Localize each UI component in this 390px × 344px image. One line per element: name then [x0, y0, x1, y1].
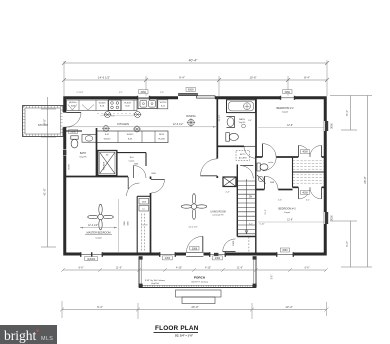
- svg-text:10'-6": 10'-6": [249, 76, 256, 80]
- window left wall bath: [63, 150, 68, 157]
- svg-text:Carpet: Carpet: [129, 159, 135, 162]
- svg-text:B-42: B-42: [105, 134, 109, 136]
- kitchen sink: [138, 99, 157, 109]
- svg-text:4'-10": 4'-10": [176, 267, 182, 270]
- master dim line: [80, 227, 117, 229]
- stairs: [236, 165, 238, 237]
- door top of stairs: [240, 165, 253, 167]
- left side dimension line: [47, 97, 49, 247]
- svg-text:Vinyl Rail: Vinyl Rail: [151, 283, 159, 285]
- tub bath2: [227, 100, 256, 113]
- svg-text:12'-6": 12'-6": [287, 220, 293, 222]
- svg-text:MLS: MLS: [41, 336, 53, 342]
- cooktop: [109, 100, 122, 111]
- svg-text:(2)3002: (2)3002: [87, 258, 96, 261]
- svg-text:2'-6": 2'-6": [278, 199, 282, 201]
- svg-text:11'-6": 11'-6": [237, 267, 243, 270]
- svg-text:MASTER BEDROOM: MASTER BEDROOM: [86, 232, 110, 235]
- svg-text:2'-0": 2'-0": [160, 92, 164, 94]
- chase box with X: [223, 177, 236, 187]
- toilet bath3: [257, 163, 260, 171]
- svg-text:3'-1": 3'-1": [306, 199, 310, 201]
- svg-text:8 3/4" Sq. Wd. Columns: 8 3/4" Sq. Wd. Columns: [145, 280, 165, 282]
- ceiling fan master: [99, 204, 102, 214]
- bedroom2 dim: [258, 127, 324, 129]
- sink bath2: [227, 117, 235, 128]
- closet shelves hatch upper: [293, 160, 324, 162]
- kitchen lower cabinets: [97, 131, 169, 143]
- svg-text:14'-6 1/2": 14'-6 1/2": [98, 76, 110, 80]
- svg-text:LIVING ROOM: LIVING ROOM: [210, 211, 225, 213]
- laundry closet walls: [116, 151, 118, 176]
- svg-text:Vinyl Flr: Vinyl Flr: [79, 156, 87, 158]
- svg-text:PORCH: PORCH: [194, 276, 206, 280]
- extension lines top: [63, 61, 65, 96]
- shower: [98, 151, 117, 176]
- laundry door arc: [134, 166, 147, 179]
- svg-text:3050: 3050: [331, 123, 334, 129]
- vanity bath1: [82, 135, 96, 143]
- bath2 door arc: [244, 146, 256, 158]
- wall bath2 south y146: [217, 145, 244, 147]
- kitchen light symbols: [105, 112, 111, 118]
- svg-text:SC: 1/4" = 1'-0": SC: 1/4" = 1'-0": [175, 334, 194, 337]
- sliding door dining 6068: [178, 94, 215, 100]
- porch rail hatch: [139, 285, 141, 287]
- svg-text:B-36: B-36: [126, 106, 130, 108]
- wall bedroom2 south y157: [255, 156, 262, 158]
- svg-text:W-2430: W-2430: [158, 138, 165, 140]
- svg-text:3'-1": 3'-1": [119, 92, 123, 94]
- dashed upper cabinet line: [97, 113, 137, 115]
- wall dining/bath vertical x217: [216, 99, 218, 159]
- closet2 double doors 4068: [298, 187, 300, 199]
- master door arc: [127, 183, 140, 196]
- railing dashed below stairs: [248, 237, 250, 253]
- svg-text:3'-0": 3'-0": [248, 120, 252, 122]
- door arc dining opening: [201, 159, 218, 176]
- svg-text:B-21: B-21: [161, 105, 165, 107]
- exterior walls: [65, 98, 326, 254]
- svg-text:3068: 3068: [128, 221, 130, 225]
- svg-text:SHOWER: SHOWER: [104, 161, 106, 170]
- wall hall/bedroom3 y189.5: [256, 189, 264, 191]
- door at stair hall 2468: [223, 251, 236, 253]
- svg-text:2452: 2452: [215, 257, 221, 260]
- svg-text:ATTIC: ATTIC: [240, 153, 246, 156]
- svg-text:9'-4": 9'-4": [179, 76, 185, 80]
- svg-text:Lin.: Lin.: [142, 208, 146, 210]
- stoop entry door 2868: [63, 112, 68, 128]
- svg-text:W-1803: W-1803: [99, 102, 106, 104]
- window living 2452 right: [209, 252, 226, 257]
- svg-text:6'-6": 6'-6": [345, 241, 349, 247]
- window bedroom2 3050 top: [280, 96, 295, 100]
- master closet: [136, 196, 138, 253]
- svg-text:21068: 21068: [69, 163, 71, 169]
- svg-text:W-4230: W-4230: [104, 138, 111, 140]
- wall master north y176.5: [66, 176, 128, 178]
- svg-text:6068: 6068: [188, 89, 194, 92]
- svg-text:2868: 2868: [124, 221, 126, 225]
- dimension line top 40-4: [64, 62, 327, 64]
- svg-text:3068: 3068: [192, 247, 198, 250]
- svg-text:FLOOR PLAN: FLOOR PLAN: [155, 325, 199, 332]
- svg-text:STOOP: STOOP: [38, 123, 48, 127]
- svg-text:28'-0": 28'-0": [363, 176, 367, 183]
- door arc bath3 lower: [263, 157, 277, 170]
- porch columns: [139, 284, 143, 288]
- window right wall 3050 lower: [324, 212, 329, 224]
- front door 3068: [186, 252, 204, 257]
- svg-text:Laminate Flr: Laminate Flr: [212, 214, 223, 217]
- door bedroom2: [262, 144, 264, 157]
- svg-text:DINING: DINING: [186, 114, 195, 118]
- svg-text:4088: 4088: [71, 105, 75, 107]
- dimension line 2 top: [64, 79, 327, 81]
- svg-text:41'-0": 41'-0": [43, 188, 47, 195]
- svg-text:20'-0": 20'-0": [191, 305, 198, 309]
- svg-text:5'-10": 5'-10": [259, 223, 264, 225]
- porch outline: [138, 257, 140, 288]
- wall closet south y187: [293, 186, 299, 188]
- svg-text:3050: 3050: [141, 91, 147, 94]
- window bedroom3 3050 bottom: [276, 252, 294, 257]
- svg-text:DB-24: DB-24: [159, 134, 164, 136]
- svg-text:BEDROOM # 2: BEDROOM # 2: [276, 107, 294, 110]
- kitchen dim line: [67, 126, 217, 128]
- svg-text:2'-4": 2'-4": [225, 191, 230, 193]
- window living 2452 left: [159, 252, 176, 257]
- svg-text:ACCESS: ACCESS: [239, 156, 248, 159]
- svg-text:Vinyl Flr: Vinyl Flr: [239, 121, 246, 124]
- dim line y270: [63, 269, 326, 271]
- svg-text:12'-4 1/2": 12'-4 1/2": [88, 224, 98, 227]
- attic access dashed: [236, 151, 250, 161]
- toilet bath2: [226, 133, 230, 142]
- svg-text:9'-4": 9'-4": [97, 305, 103, 309]
- svg-text:12'-6 1/2": 12'-6 1/2": [173, 123, 184, 126]
- cabinet right of sink: [158, 100, 168, 109]
- svg-text:3'-1": 3'-1": [249, 223, 253, 225]
- svg-text:BEDROOM # 3: BEDROOM # 3: [278, 207, 296, 210]
- svg-text:2468: 2468: [270, 182, 274, 184]
- svg-text:W-2130: W-2130: [160, 102, 167, 104]
- svg-text:14'-2 1/2": 14'-2 1/2": [188, 226, 197, 228]
- corner sink bath3: [257, 175, 266, 184]
- svg-text:B-18: B-18: [100, 106, 104, 108]
- svg-text:W-3615: W-3615: [127, 134, 134, 136]
- right side dimension lines: [330, 95, 372, 97]
- svg-text:2'-4 1/2": 2'-4 1/2": [141, 225, 148, 227]
- svg-text:Carpet: Carpet: [284, 211, 291, 214]
- svg-text:4068: 4068: [302, 192, 308, 195]
- svg-text:8'-6": 8'-6": [79, 267, 84, 270]
- svg-text:20'-10": 20'-10": [219, 114, 221, 121]
- svg-text:40'-4": 40'-4": [189, 59, 198, 63]
- svg-text:8'-4": 8'-4": [304, 76, 310, 80]
- svg-text:3050: 3050: [285, 91, 291, 94]
- svg-text:KITCHEN: KITCHEN: [117, 122, 129, 126]
- svg-text:W-3618: W-3618: [124, 102, 131, 104]
- svg-text:(A) Shlvs: (A) Shlvs: [69, 101, 77, 104]
- window master (2)3002 bottom: [80, 252, 103, 257]
- svg-text:13'-4": 13'-4": [285, 305, 292, 309]
- wall closet divider y172: [293, 171, 326, 173]
- svg-text:6'-6": 6'-6": [305, 267, 310, 270]
- door arc living west: [151, 179, 165, 193]
- svg-text:3/4"x8' P.T. Decking: 3/4"x8' P.T. Decking: [191, 282, 208, 284]
- porch steps: [176, 290, 222, 297]
- closet1 double doors 4068: [298, 145, 300, 157]
- wall closet west x292.5: [292, 157, 294, 187]
- svg-text:4068: 4068: [302, 151, 308, 154]
- svg-text:DN: DN: [249, 197, 253, 199]
- wall living west x150.5: [150, 177, 152, 180]
- ceiling fan living: [192, 194, 195, 204]
- toilet bath1: [71, 136, 78, 139]
- svg-text:B-36: B-36: [128, 138, 132, 140]
- bright MLS logo: [0, 325, 57, 344]
- svg-text:BATH: BATH: [239, 118, 245, 121]
- svg-text:3050: 3050: [282, 249, 288, 252]
- svg-text:11'-6": 11'-6": [116, 267, 122, 270]
- svg-text:1668: 1668: [142, 201, 146, 203]
- svg-text:bright: bright: [4, 328, 36, 343]
- svg-text:9'-2": 9'-2": [111, 116, 115, 118]
- svg-text:4'-10": 4'-10": [205, 267, 211, 270]
- door bedroom3: [264, 176, 266, 189]
- cabinet door swing V marks: [68, 105, 77, 111]
- svg-text:2468: 2468: [233, 240, 235, 246]
- svg-text:60": 60": [106, 155, 109, 157]
- window right wall 3050 upper: [324, 121, 329, 131]
- svg-text:smths: smths: [268, 161, 273, 164]
- stoop: [23, 106, 64, 137]
- svg-text:36-0: 36-0: [130, 157, 134, 159]
- wall bath/bedroom2 vertical x256: [255, 99, 257, 158]
- svg-text:3050: 3050: [331, 215, 334, 221]
- svg-text:BATH: BATH: [80, 152, 86, 155]
- kitchen upper cabinets: [67, 100, 138, 111]
- bottom dim line y309.5: [62, 309, 327, 311]
- wall bath north y131: [66, 130, 82, 132]
- svg-text:8'-4": 8'-4": [345, 110, 349, 116]
- svg-text:Carpet: Carpet: [95, 237, 102, 240]
- wall kitchen/bath x96.5: [96, 128, 98, 177]
- svg-text:12'-6": 12'-6": [287, 125, 293, 127]
- closet shelves hatch lower: [293, 174, 324, 176]
- window kitchen sink 3050: [137, 96, 150, 100]
- svg-text:10'-2": 10'-2": [265, 209, 267, 214]
- svg-text:2452: 2452: [165, 257, 171, 260]
- svg-text:Carpet: Carpet: [282, 110, 289, 113]
- svg-text:2'-1 1/2": 2'-1 1/2": [77, 92, 84, 94]
- svg-text:5'-6": 5'-6": [272, 275, 274, 280]
